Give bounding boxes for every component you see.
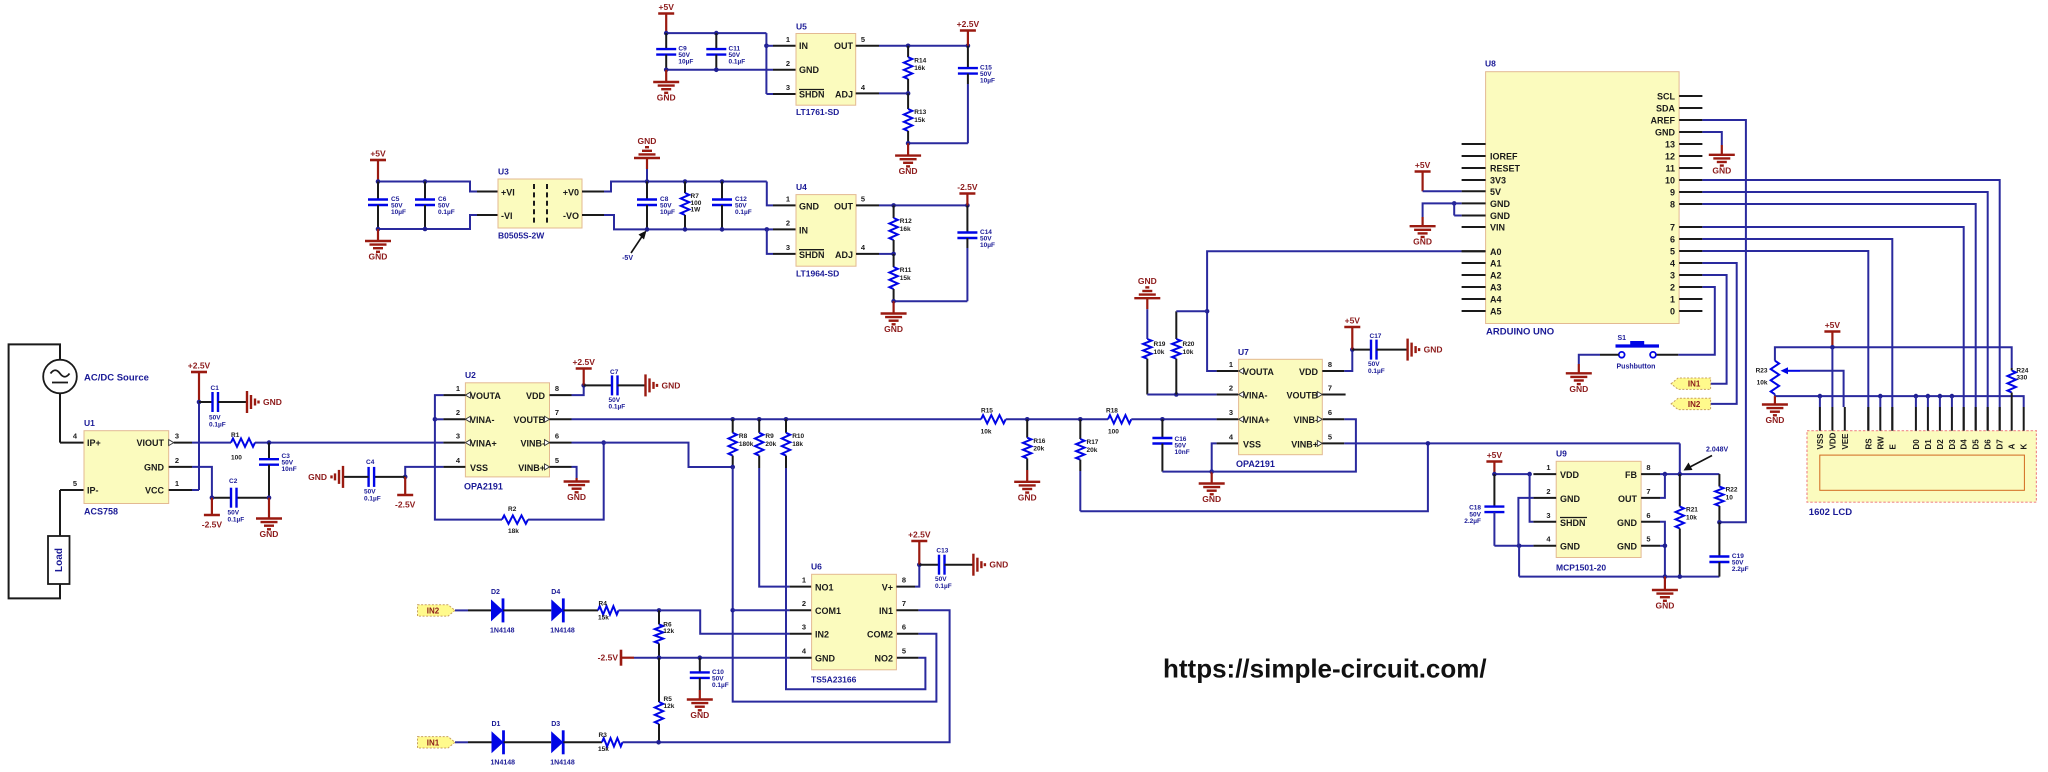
wire to U4 pin1 <box>767 182 773 206</box>
svg-text:A3: A3 <box>1490 283 1502 293</box>
svg-text:0.1µF: 0.1µF <box>735 209 752 216</box>
svg-text:0.1µF: 0.1µF <box>364 495 381 502</box>
svg-text:1: 1 <box>786 35 790 44</box>
resistor R1 <box>231 438 255 446</box>
svg-text:VINA+: VINA+ <box>1243 415 1270 425</box>
svg-text:FB: FB <box>1625 470 1637 480</box>
wire IP- to Load <box>60 489 84 491</box>
diode D3 1N4148 <box>551 731 563 753</box>
svg-text:2: 2 <box>786 59 790 68</box>
wire R13 bottom to C15 <box>908 142 968 144</box>
svg-text:5: 5 <box>73 479 77 488</box>
resistor R20 <box>1175 311 1177 339</box>
svg-text:+2.5V: +2.5V <box>957 19 980 29</box>
svg-text:+2.5V: +2.5V <box>572 357 595 367</box>
svg-text:R17: R17 <box>1087 439 1099 446</box>
svg-text:12k: 12k <box>664 703 675 710</box>
resistor R3 <box>602 738 623 746</box>
capacitor C5 <box>377 182 379 200</box>
svg-text:3: 3 <box>1546 511 1550 520</box>
svg-text:1: 1 <box>1229 360 1233 369</box>
svg-text:+2.5V: +2.5V <box>188 361 211 371</box>
svg-text:10µF: 10µF <box>391 209 406 216</box>
wire R11 bottom to C14 <box>894 300 968 302</box>
svg-text:10µF: 10µF <box>980 242 995 249</box>
svg-text:SDA: SDA <box>1656 104 1676 114</box>
svg-text:R13: R13 <box>914 109 926 116</box>
resistor R13 <box>907 93 909 109</box>
ground below C5 <box>377 229 379 241</box>
svg-text:+VI: +VI <box>501 188 515 198</box>
svg-text:10k: 10k <box>1757 380 1768 387</box>
svg-text:R16: R16 <box>1033 438 1045 445</box>
svg-text:E: E <box>1888 444 1897 450</box>
svg-text:10nF: 10nF <box>282 466 297 473</box>
resistor R17 <box>1079 419 1081 439</box>
svg-text:IN: IN <box>799 41 808 51</box>
svg-text:C1: C1 <box>211 385 220 392</box>
junction R8 bottom <box>730 465 735 470</box>
junction U4 IN <box>765 227 770 232</box>
svg-text:GND: GND <box>1413 237 1432 247</box>
svg-text:GND: GND <box>260 529 279 539</box>
wire VINA- stub <box>435 418 444 420</box>
svg-text:U5: U5 <box>796 22 807 32</box>
svg-text:4: 4 <box>73 432 78 441</box>
wire R4 to junction <box>619 609 660 611</box>
svg-text:A1: A1 <box>1490 259 1502 269</box>
svg-text:NO2: NO2 <box>874 654 893 664</box>
ground right of C7 <box>644 374 646 396</box>
junction R21 bottom <box>1678 574 1683 579</box>
junction C9 top <box>664 31 669 36</box>
wire V+ to +2.5V <box>896 586 915 588</box>
svg-text:-2.5V: -2.5V <box>202 520 223 530</box>
junction R5 bottom <box>656 740 661 745</box>
svg-text:12k: 12k <box>663 628 674 635</box>
wire U3 input top rail <box>378 182 477 192</box>
svg-text:GND: GND <box>1617 542 1638 552</box>
switch S1 Pushbutton <box>1619 352 1625 358</box>
svg-text:18k: 18k <box>792 441 803 448</box>
svg-text:20k: 20k <box>1033 446 1044 453</box>
wire U5 input vertical <box>765 33 767 94</box>
wire D9 to LCD D6 <box>1702 192 1987 407</box>
svg-text:A2: A2 <box>1490 271 1502 281</box>
junction R14 top <box>906 44 911 49</box>
svg-text:R3: R3 <box>599 732 608 739</box>
svg-text:VEE: VEE <box>1841 433 1850 450</box>
svg-text:VDD: VDD <box>1560 470 1580 480</box>
svg-text:+V0: +V0 <box>563 188 579 198</box>
svg-text:LT1761-SD: LT1761-SD <box>796 107 839 117</box>
wire VIOUT to R1 <box>174 442 192 444</box>
svg-text:IN1: IN1 <box>427 738 440 747</box>
resistor R22 <box>1718 474 1720 486</box>
op-amp U7 OPA2191 <box>1239 359 1323 454</box>
svg-text:VINA-: VINA- <box>1243 391 1268 401</box>
wire COM1 stub <box>733 609 790 611</box>
junction C2 left <box>210 495 215 500</box>
svg-text:ADJ: ADJ <box>835 250 853 260</box>
svg-text:S1: S1 <box>1618 335 1627 342</box>
wire R2 to VINB- <box>528 443 604 520</box>
svg-text:VDD: VDD <box>1828 432 1837 449</box>
svg-text:2: 2 <box>175 456 179 465</box>
svg-text:OPA2191: OPA2191 <box>464 482 503 492</box>
junction C11 top <box>714 31 719 36</box>
svg-text:SCL: SCL <box>1657 92 1676 102</box>
svg-text:+5V: +5V <box>1487 450 1503 460</box>
svg-text:+5V: +5V <box>659 2 675 12</box>
wire U7 VDD to +5V <box>1322 370 1344 372</box>
svg-text:U9: U9 <box>1556 449 1567 459</box>
svg-text:D4: D4 <box>1960 439 1969 450</box>
svg-text:5: 5 <box>1670 247 1675 257</box>
svg-text:R18: R18 <box>1106 408 1118 415</box>
svg-text:330: 330 <box>2016 374 2027 381</box>
svg-text:4: 4 <box>1229 432 1234 441</box>
wire LCD ground rail <box>1774 394 1776 396</box>
flag IN1 (input) <box>418 737 456 748</box>
svg-text:+2.5V: +2.5V <box>908 530 931 540</box>
ground above C8 <box>646 158 648 169</box>
svg-text:ADJ: ADJ <box>835 90 853 100</box>
svg-text:3: 3 <box>1229 408 1233 417</box>
svg-text:GND: GND <box>815 654 836 664</box>
svg-text:U4: U4 <box>796 182 807 192</box>
junction C6 top <box>423 179 428 184</box>
svg-text:7: 7 <box>902 599 906 608</box>
junction C4 <box>403 475 408 480</box>
potentiometer R23 <box>1771 361 1779 395</box>
junction R12 top <box>891 203 896 208</box>
svg-text:IN: IN <box>799 225 808 235</box>
capacitor C15 <box>967 46 969 68</box>
svg-text:Pushbutton: Pushbutton <box>1617 363 1656 370</box>
svg-text:0.1µF: 0.1µF <box>609 404 626 411</box>
svg-text:7: 7 <box>1646 487 1650 496</box>
svg-text:2: 2 <box>1229 384 1233 393</box>
svg-text:GND: GND <box>1560 542 1581 552</box>
svg-text:D7: D7 <box>1996 439 2005 450</box>
svg-text:GND: GND <box>1765 415 1784 425</box>
ground below C3 <box>268 498 270 519</box>
capacitor C14 <box>966 205 968 232</box>
dcdc U3 B0505S-2W <box>498 179 582 228</box>
svg-text:AREF: AREF <box>1651 116 1676 126</box>
junction C16 top <box>1160 417 1165 422</box>
wire R9 to NO1 <box>759 468 789 587</box>
resistor R19 <box>1143 339 1151 359</box>
source AC/DC Source <box>43 360 77 394</box>
junction R16 top <box>1025 417 1030 422</box>
svg-text:SHDN: SHDN <box>799 250 825 260</box>
capacitor C17 <box>1352 349 1371 351</box>
svg-text:VSS: VSS <box>470 463 488 473</box>
svg-text:5: 5 <box>1328 432 1332 441</box>
svg-text:1N4148: 1N4148 <box>491 759 516 766</box>
power -2.5V below C2 <box>211 498 213 515</box>
svg-text:3: 3 <box>786 243 790 252</box>
wire OUT up to FB <box>1641 497 1660 499</box>
svg-text:2: 2 <box>456 408 460 417</box>
svg-text:COM2: COM2 <box>867 630 893 640</box>
svg-text:+5V: +5V <box>1345 316 1361 326</box>
svg-text:4: 4 <box>802 647 807 656</box>
svg-text:0: 0 <box>1670 307 1675 317</box>
svg-text:IN1: IN1 <box>1688 380 1701 389</box>
capacitor C8 <box>646 182 648 200</box>
wire D6 to LCD E <box>1702 239 1892 407</box>
wire VDD up <box>550 394 572 396</box>
capacitor C1 <box>199 401 213 403</box>
svg-text:5: 5 <box>555 456 559 465</box>
svg-text:U7: U7 <box>1238 347 1249 357</box>
wire VINB+ to ground <box>550 466 572 468</box>
junction R6 bottom <box>657 655 662 660</box>
svg-text:GND: GND <box>1138 276 1157 286</box>
capacitor C19 <box>1718 522 1720 556</box>
svg-text:5: 5 <box>861 195 865 204</box>
svg-text:GND: GND <box>1490 199 1511 209</box>
power +5V (LCD) <box>1831 332 1833 348</box>
svg-text:100: 100 <box>231 455 242 462</box>
wire GND pins join <box>1452 201 1457 206</box>
svg-text:R1: R1 <box>231 432 240 439</box>
ground left of C4 <box>342 466 344 488</box>
svg-text:2.2µF: 2.2µF <box>1464 518 1481 525</box>
svg-text:RS: RS <box>1864 438 1873 450</box>
capacitor C18 <box>1493 474 1495 507</box>
flag IN1 (to U6) <box>1671 378 1711 389</box>
power -2.5V (U4 out) <box>966 194 968 206</box>
U8 pin stubs <box>1679 95 1702 97</box>
junction COM1 <box>730 608 735 613</box>
junction C5 bottom <box>376 227 381 232</box>
svg-text:16k: 16k <box>900 226 911 233</box>
svg-text:6: 6 <box>1670 235 1675 245</box>
svg-text:7: 7 <box>1670 223 1675 233</box>
svg-text:16k: 16k <box>914 65 925 72</box>
svg-text:GND: GND <box>567 492 586 502</box>
svg-text:IP-: IP- <box>87 486 99 496</box>
junction C9 bottom <box>664 68 669 73</box>
svg-text:8: 8 <box>1328 360 1332 369</box>
ground right of C17 <box>1406 339 1408 361</box>
wire R3 to U6 IN1 <box>623 741 659 743</box>
wire VOUTA feedback <box>443 394 465 396</box>
svg-text:20k: 20k <box>1087 447 1098 454</box>
flag IN2 (input) <box>418 605 456 616</box>
svg-text:1W: 1W <box>691 207 702 214</box>
svg-text:10k: 10k <box>1183 349 1194 356</box>
svg-text:GND: GND <box>144 463 165 473</box>
svg-text:GND: GND <box>1712 165 1731 175</box>
svg-text:10k: 10k <box>1686 515 1697 522</box>
resistor R7 <box>684 182 686 194</box>
capacitor C3 <box>268 443 270 460</box>
wire VOUTB stub U7 <box>1322 394 1345 396</box>
svg-text:R9: R9 <box>765 433 774 440</box>
wire source to IP+ <box>59 393 61 442</box>
svg-text:1N4148: 1N4148 <box>550 627 575 634</box>
svg-text:LT1964-SD: LT1964-SD <box>796 269 839 279</box>
svg-text:7: 7 <box>555 408 559 417</box>
wire R19 to VINA- <box>1147 394 1216 396</box>
junction R17 top <box>1078 417 1083 422</box>
wire U5 pin3 SHDN <box>766 93 773 95</box>
svg-text:U6: U6 <box>811 562 822 572</box>
svg-text:R15: R15 <box>981 408 993 415</box>
ground below R11 <box>892 301 894 313</box>
svg-text:15k: 15k <box>598 746 609 753</box>
wire C16 bottom to VSS <box>1162 471 1211 473</box>
svg-text:C13: C13 <box>936 548 948 555</box>
svg-text:R14: R14 <box>914 57 926 64</box>
junction U9 VDD <box>1492 472 1497 477</box>
svg-text:2: 2 <box>1670 283 1675 293</box>
wire R10 to NO2 <box>786 468 925 689</box>
svg-text:3: 3 <box>1670 271 1675 281</box>
ground below R16 <box>1026 470 1028 482</box>
svg-text:10nF: 10nF <box>1175 449 1190 456</box>
svg-text:GND: GND <box>662 380 681 390</box>
junction C6 bottom <box>423 227 428 232</box>
wire U3 input bottom rail <box>378 215 477 229</box>
svg-text:AC/DC Source: AC/DC Source <box>84 373 149 384</box>
power +5V (U9 VDD) <box>1493 462 1495 475</box>
capacitor C16 <box>1161 419 1163 438</box>
LCD pin stubs <box>1819 407 1821 431</box>
svg-text:C4: C4 <box>366 459 375 466</box>
wire U3 -VO out <box>582 214 604 216</box>
wire U4 OUT <box>856 204 879 206</box>
wire VOUTB rail <box>550 418 572 420</box>
wire AREF net <box>1702 120 1746 522</box>
junction R9 top <box>757 417 762 422</box>
junction R7 bottom <box>683 227 688 232</box>
svg-text:R8: R8 <box>739 433 748 440</box>
svg-text:GND: GND <box>1569 384 1588 394</box>
svg-text:GND: GND <box>1655 128 1676 138</box>
junction R22/AREF <box>1717 520 1722 525</box>
resistor R8 <box>732 419 734 433</box>
ground below R13 <box>907 143 909 155</box>
junction R4/R6 <box>657 608 662 613</box>
svg-text:0.1µF: 0.1µF <box>729 59 746 66</box>
junction U9 GND4 <box>1517 544 1522 549</box>
svg-text:1602 LCD: 1602 LCD <box>1809 507 1852 518</box>
sensor U1 ACS758 <box>84 431 169 504</box>
svg-text:GND: GND <box>1202 494 1221 504</box>
svg-text:4: 4 <box>456 456 461 465</box>
svg-text:SHDN: SHDN <box>1560 518 1586 528</box>
svg-text:D6: D6 <box>1984 439 1993 450</box>
wire source loop <box>9 344 60 598</box>
wire R18 to VINA+ <box>1131 418 1216 420</box>
svg-text:IN2: IN2 <box>815 630 829 640</box>
svg-text:10k: 10k <box>1154 349 1165 356</box>
wire IN2 to D2 <box>455 609 468 611</box>
svg-text:GND: GND <box>799 201 820 211</box>
svg-text:GND: GND <box>690 710 709 720</box>
svg-text:8: 8 <box>1670 200 1675 210</box>
wire VINB- to C16 rail <box>1322 418 1344 420</box>
resistor R21 <box>1679 474 1681 506</box>
svg-text:GND: GND <box>638 136 657 146</box>
svg-text:https://simple-circuit.com/: https://simple-circuit.com/ <box>1163 653 1487 683</box>
svg-text:R21: R21 <box>1686 507 1698 514</box>
svg-text:GND: GND <box>1490 211 1511 221</box>
ground right GND pin <box>1721 145 1723 155</box>
svg-text:D4: D4 <box>551 589 560 596</box>
svg-text:2: 2 <box>802 599 806 608</box>
junction C3 bottom <box>267 495 272 500</box>
svg-text:R11: R11 <box>900 267 912 274</box>
svg-text:-2.5V: -2.5V <box>957 182 978 192</box>
wire to U4 pin2 <box>767 228 773 230</box>
svg-text:18k: 18k <box>508 528 519 535</box>
wire U9 ground rail <box>1518 546 1520 577</box>
svg-text:VIN: VIN <box>1490 223 1505 233</box>
svg-text:10µF: 10µF <box>980 78 995 85</box>
junction VDD col <box>1830 345 1835 350</box>
capacitor C9 <box>665 33 667 49</box>
wire U3 +V0 out <box>582 191 604 193</box>
svg-text:3: 3 <box>456 432 460 441</box>
junction C8 bottom <box>645 227 650 232</box>
svg-text:VINA+: VINA+ <box>470 439 497 449</box>
capacitor C7 <box>584 384 612 386</box>
wire GND5 join <box>1641 545 1660 547</box>
svg-text:D2: D2 <box>491 589 500 596</box>
power +5V (U5 input) <box>665 14 667 34</box>
resistor R11 <box>893 254 895 267</box>
power +2.5V (U6 V+) <box>918 541 920 565</box>
svg-text:GND: GND <box>1560 494 1581 504</box>
svg-text:0.1µF: 0.1µF <box>209 421 226 428</box>
svg-text:IP+: IP+ <box>87 438 101 448</box>
svg-text:Load: Load <box>54 548 65 572</box>
wire D3 to IN1 flag <box>1702 275 1726 384</box>
ground LCD rail <box>1774 396 1776 404</box>
svg-text:VOUTA: VOUTA <box>470 391 501 401</box>
svg-text:D1: D1 <box>492 721 501 728</box>
svg-text:11: 11 <box>1665 164 1675 174</box>
svg-text:A: A <box>2008 444 2017 450</box>
svg-text:GND: GND <box>1617 518 1638 528</box>
ground right of C1 <box>246 391 248 413</box>
svg-text:A4: A4 <box>1490 295 1502 305</box>
svg-text:1N4148: 1N4148 <box>490 627 515 634</box>
svg-text:5: 5 <box>861 35 865 44</box>
wire R20 branch <box>1176 310 1207 312</box>
junction C1 <box>197 400 202 405</box>
junction ADJ/R13 <box>906 91 911 96</box>
svg-text:SHDN: SHDN <box>799 90 825 100</box>
svg-text:2: 2 <box>786 219 790 228</box>
wire R23 wiper to VEE <box>1800 371 1844 407</box>
wire GND rail to U5 pin2 <box>666 69 773 71</box>
junction VOUTA/VINA- <box>433 417 438 422</box>
svg-text:ACS758: ACS758 <box>84 507 118 517</box>
svg-text:15k: 15k <box>900 275 911 282</box>
svg-text:6: 6 <box>902 623 906 632</box>
svg-text:IOREF: IOREF <box>1490 152 1518 162</box>
wire D10 to LCD D7 <box>1702 180 1999 407</box>
svg-text:VINB-: VINB- <box>521 439 546 449</box>
